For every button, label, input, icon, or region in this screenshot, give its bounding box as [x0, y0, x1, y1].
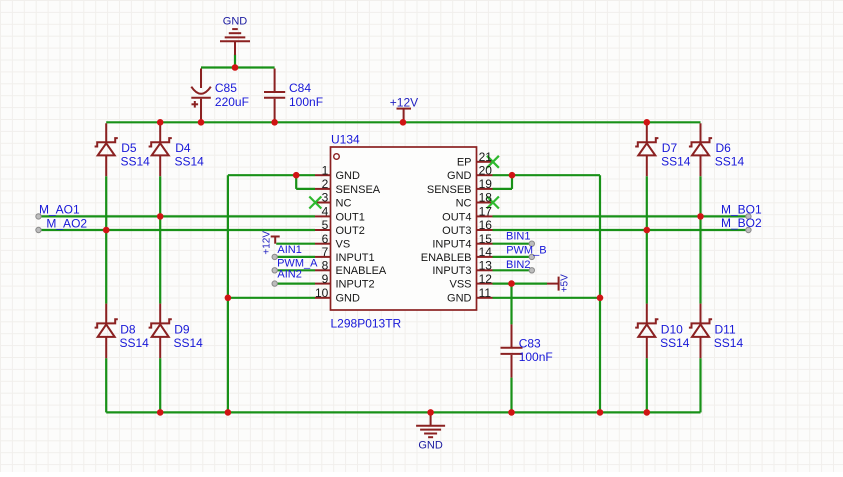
svg-text:BIN2: BIN2 [506, 259, 530, 271]
svg-text:SS14: SS14 [660, 336, 690, 350]
svg-text:13: 13 [479, 259, 493, 273]
svg-text:SS14: SS14 [715, 154, 745, 168]
svg-text:GND: GND [336, 170, 361, 182]
svg-text:9: 9 [322, 272, 329, 286]
svg-text:18: 18 [479, 191, 493, 205]
svg-text:M_BO1: M_BO1 [721, 203, 762, 217]
svg-text:10: 10 [315, 286, 329, 300]
svg-text:100nF: 100nF [519, 350, 553, 364]
svg-text:D7: D7 [662, 141, 678, 155]
svg-text:OUT3: OUT3 [442, 225, 471, 237]
svg-text:16: 16 [479, 218, 493, 232]
svg-text:12: 12 [479, 272, 493, 286]
svg-text:INPUT2: INPUT2 [336, 279, 375, 291]
svg-text:ENABLEB: ENABLEB [421, 252, 472, 264]
svg-text:M_AO2: M_AO2 [46, 216, 87, 230]
svg-text:C83: C83 [519, 337, 541, 351]
svg-text:NC: NC [456, 197, 472, 209]
svg-text:GND: GND [223, 15, 248, 27]
svg-text:5: 5 [322, 218, 329, 232]
svg-text:PWM_B: PWM_B [506, 244, 546, 256]
svg-text:SENSEB: SENSEB [427, 184, 472, 196]
svg-text:3: 3 [322, 191, 329, 205]
svg-text:BIN1: BIN1 [506, 231, 530, 243]
svg-text:AIN1: AIN1 [277, 244, 301, 256]
svg-text:SS14: SS14 [714, 336, 744, 350]
svg-text:2: 2 [322, 177, 329, 191]
svg-text:OUT4: OUT4 [442, 211, 471, 223]
svg-text:D6: D6 [716, 141, 732, 155]
svg-text:C85: C85 [215, 81, 237, 95]
svg-text:SS14: SS14 [174, 336, 204, 350]
svg-text:D10: D10 [661, 323, 683, 337]
svg-text:M_BO2: M_BO2 [721, 216, 762, 230]
svg-text:SS14: SS14 [120, 336, 150, 350]
svg-text:+5V: +5V [559, 274, 570, 292]
svg-text:+12V: +12V [390, 95, 418, 109]
svg-text:INPUT4: INPUT4 [432, 239, 471, 251]
svg-text:19: 19 [479, 177, 493, 191]
svg-text:AIN2: AIN2 [277, 269, 301, 281]
svg-text:NC: NC [336, 197, 352, 209]
svg-text:GND: GND [447, 293, 472, 305]
svg-text:OUT2: OUT2 [336, 225, 365, 237]
svg-text:GND: GND [336, 293, 361, 305]
svg-text:D5: D5 [121, 141, 137, 155]
svg-text:VSS: VSS [449, 279, 471, 291]
svg-text:14: 14 [479, 245, 493, 259]
svg-text:INPUT1: INPUT1 [336, 252, 375, 264]
svg-text:17: 17 [479, 205, 493, 219]
svg-text:U134: U134 [331, 132, 360, 146]
svg-text:+12V: +12V [261, 231, 272, 255]
svg-text:EP: EP [457, 157, 472, 169]
svg-text:1: 1 [322, 163, 329, 177]
svg-text:INPUT3: INPUT3 [432, 265, 471, 277]
svg-text:ENABLEA: ENABLEA [336, 265, 387, 277]
svg-text:SENSEA: SENSEA [336, 184, 381, 196]
svg-text:11: 11 [479, 286, 492, 300]
svg-text:D4: D4 [175, 141, 191, 155]
svg-text:M_AO1: M_AO1 [39, 202, 80, 216]
svg-text:SS14: SS14 [121, 154, 151, 168]
svg-text:OUT1: OUT1 [336, 211, 365, 223]
svg-text:6: 6 [322, 232, 329, 246]
svg-text:20: 20 [479, 163, 493, 177]
svg-text:C84: C84 [289, 81, 311, 95]
svg-text:D11: D11 [715, 323, 736, 337]
svg-text:GND: GND [447, 170, 472, 182]
svg-text:8: 8 [322, 259, 329, 273]
svg-text:SS14: SS14 [175, 154, 205, 168]
svg-text:100nF: 100nF [289, 95, 323, 109]
svg-text:220uF: 220uF [215, 95, 249, 109]
svg-text:SS14: SS14 [661, 154, 691, 168]
svg-text:VS: VS [336, 239, 351, 251]
svg-text:21: 21 [479, 150, 493, 164]
svg-text:D8: D8 [120, 323, 136, 337]
svg-text:GND: GND [418, 439, 443, 451]
svg-text:15: 15 [479, 232, 493, 246]
svg-text:4: 4 [322, 205, 329, 219]
svg-text:7: 7 [322, 245, 329, 259]
svg-text:D9: D9 [174, 323, 190, 337]
svg-text:L298P013TR: L298P013TR [331, 317, 402, 331]
